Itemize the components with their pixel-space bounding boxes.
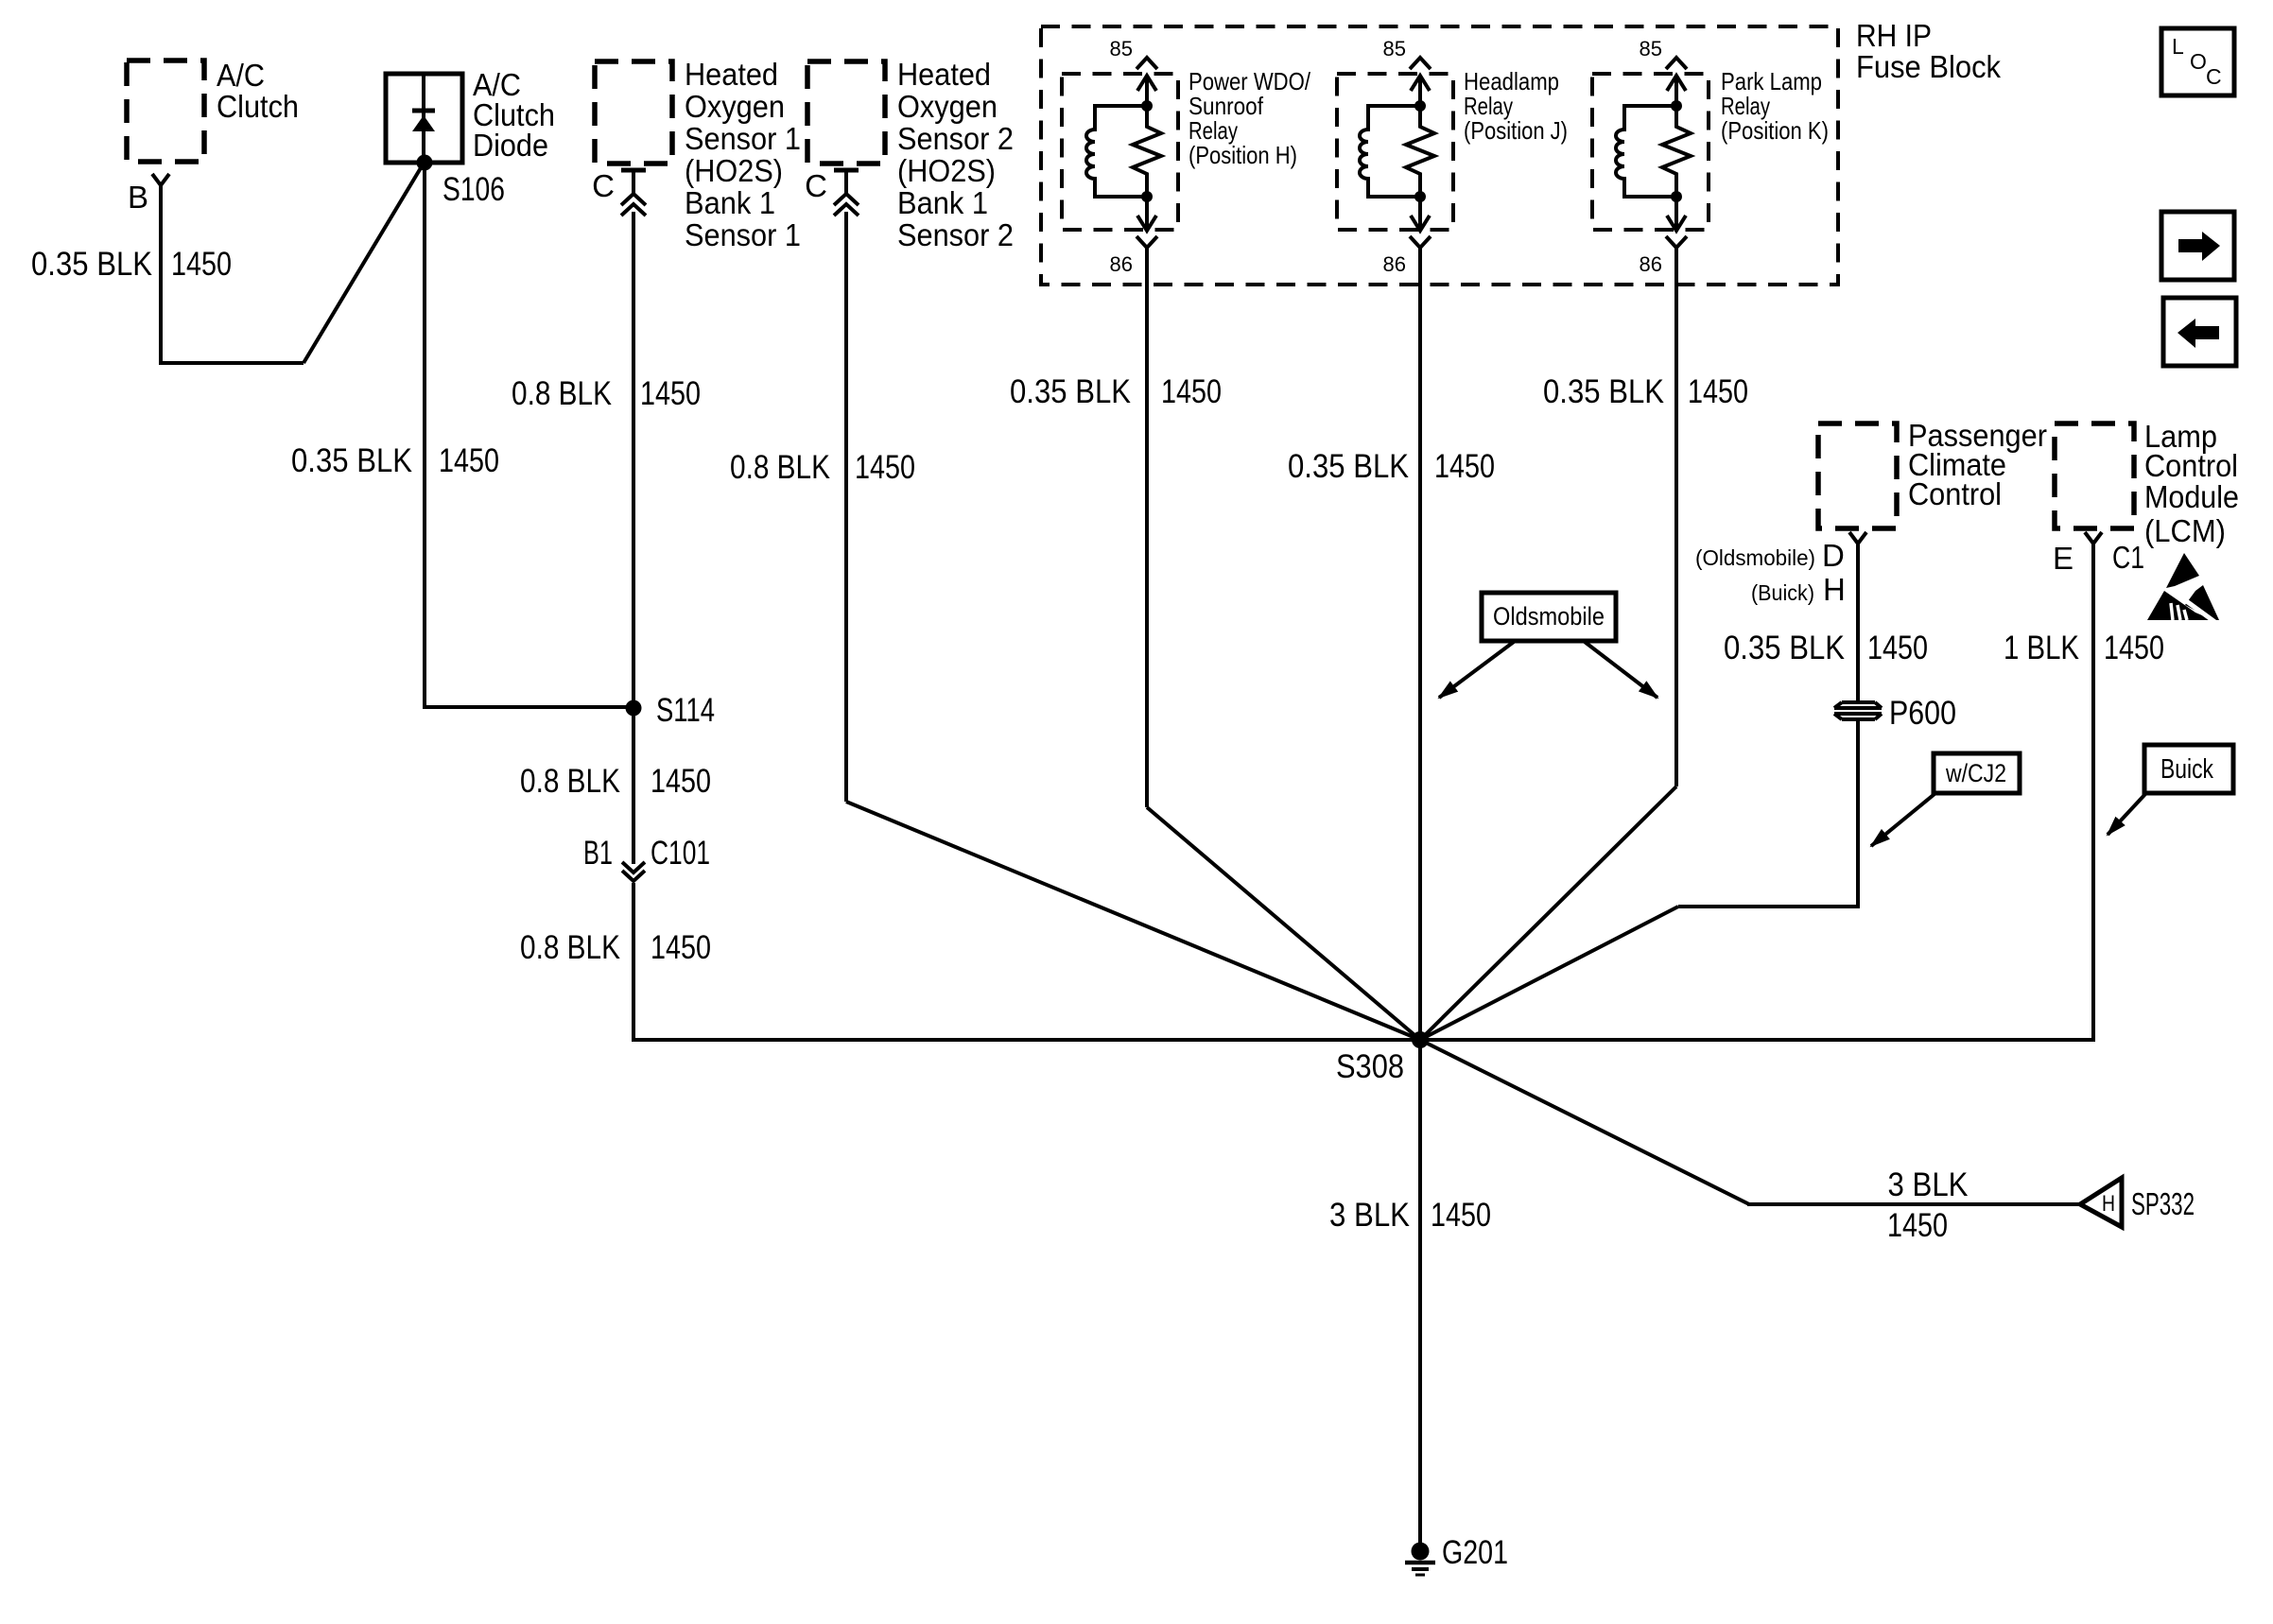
svg-text:(Oldsmobile): (Oldsmobile) (1695, 545, 1815, 570)
svg-text:0.8 BLK: 0.8 BLK (520, 763, 620, 800)
Buick callout box (2144, 745, 2233, 793)
svg-text:85: 85 (1640, 37, 1662, 60)
pin B connector of A/C Clutch (128, 174, 169, 215)
svg-text:Fuse Block: Fuse Block (1856, 49, 2001, 84)
svg-text:1450: 1450 (651, 763, 711, 800)
svg-text:(Position J): (Position J) (1464, 116, 1568, 145)
callout arrow to park lamp wire (1585, 642, 1657, 698)
wire from sensor 1 pin C down through S114 to C101 (632, 170, 635, 864)
svg-text:(Position H): (Position H) (1189, 141, 1297, 169)
splice node S308 (1336, 1031, 1429, 1085)
wire from LCM pin down to ground bus (1420, 544, 2093, 1040)
svg-text:0.35 BLK: 0.35 BLK (1724, 630, 1845, 666)
svg-text:86: 86 (1110, 252, 1133, 276)
svg-text:1 BLK: 1 BLK (2004, 630, 2079, 666)
svg-text:D: D (1822, 538, 1845, 573)
relay K2 resistor (1406, 106, 1434, 197)
wire label 3 BLK 1450 (ground wire) (1329, 1197, 1491, 1234)
svg-text:Sensor 2: Sensor 2 (897, 217, 1014, 252)
svg-text:C: C (805, 168, 827, 203)
relay K2 pin 86 (1383, 191, 1431, 276)
svg-text:1450: 1450 (2104, 630, 2164, 666)
relay K3 pin 85 (1640, 37, 1687, 106)
svg-text:0.8 BLK: 0.8 BLK (512, 375, 612, 412)
svg-text:C1: C1 (2112, 540, 2144, 575)
svg-text:Sensor 1: Sensor 1 (685, 121, 801, 156)
wire label 0.35 BLK 1450 (climate control wire) (1724, 630, 1928, 666)
svg-text:85: 85 (1383, 37, 1406, 60)
svg-text:A/C: A/C (217, 58, 265, 93)
relay K1 pin 85 (1110, 37, 1157, 106)
svg-text:C101: C101 (651, 835, 710, 872)
relay K3 Park Lamp Relay (Position K) box (1592, 67, 1829, 230)
Passenger Climate Control component box (1818, 418, 2047, 528)
LOC legend box (2161, 28, 2234, 95)
right arrow legend box (2161, 212, 2234, 280)
wire from headlamp relay pin 86 to S308 (1418, 248, 1422, 1040)
svg-text:0.35 BLK: 0.35 BLK (1288, 448, 1409, 485)
in-line connector C101 pin B1 (583, 835, 710, 881)
wire from park lamp relay pin 86 to S308 (1674, 248, 1678, 786)
svg-text:O: O (2190, 49, 2207, 74)
wire label 3 BLK / 1450 (SP332 wire) (1887, 1166, 1969, 1244)
RH IP Fuse Block outer box (1041, 18, 2001, 285)
svg-text:1450: 1450 (439, 442, 499, 479)
wire label 0.8 BLK 1450 (sensor 1 wire) (512, 375, 701, 412)
svg-text:(HO2S): (HO2S) (897, 153, 996, 188)
LCM pin E connector C1 (2053, 532, 2144, 576)
relay K1 resistor (1133, 106, 1161, 197)
relay K3 resistor (1662, 106, 1691, 197)
svg-text:Heated: Heated (897, 57, 991, 92)
wire from C101 down to long ground bus (633, 883, 1420, 1040)
svg-text:86: 86 (1640, 252, 1662, 276)
A/C Clutch Diode box (386, 67, 555, 163)
splice node S114 (626, 692, 716, 729)
svg-text:(LCM): (LCM) (2144, 513, 2226, 548)
wire from P600 down to S308 (1678, 721, 1858, 907)
relay K3 coil (1616, 100, 1682, 197)
relay K2 coil (1360, 100, 1426, 197)
svg-text:Diode: Diode (473, 128, 548, 163)
svg-text:(Buick): (Buick) (1751, 580, 1814, 605)
callout arrow to headlamp wire (1439, 642, 1514, 698)
svg-text:Bank 1: Bank 1 (685, 185, 775, 220)
wire label 0.8 BLK 1450 (below C101) (520, 929, 711, 966)
svg-text:1450: 1450 (171, 246, 232, 283)
Oldsmobile callout box (1482, 593, 1616, 641)
svg-text:Clutch: Clutch (217, 89, 299, 124)
svg-text:1450: 1450 (651, 929, 711, 966)
svg-text:Sensor 2: Sensor 2 (897, 121, 1014, 156)
svg-text:1450: 1450 (1688, 373, 1748, 410)
pin C of HO2S sensor 1 (592, 168, 646, 216)
svg-text:1450: 1450 (1867, 630, 1928, 666)
splice SP332 (2080, 1178, 2195, 1227)
svg-text:H: H (2102, 1191, 2115, 1217)
wire from S308 to splice SP332 (1420, 1040, 1749, 1204)
wire label 0.35 BLK 1450 (pin B wire) (31, 246, 232, 283)
relay K1 pin 86 (1110, 191, 1157, 276)
svg-text:Oxygen: Oxygen (897, 89, 998, 124)
relay K1 coil (1086, 100, 1153, 197)
w/CJ2 callout box (1934, 753, 2020, 793)
svg-text:0.8 BLK: 0.8 BLK (730, 449, 830, 486)
relay K3 pin 86 (1640, 191, 1687, 276)
svg-text:1450: 1450 (1161, 373, 1222, 410)
wire from S106 down to S114 (425, 163, 633, 707)
svg-text:3 BLK: 3 BLK (1329, 1197, 1410, 1234)
svg-text:85: 85 (1110, 37, 1133, 60)
svg-text:RH IP: RH IP (1856, 18, 1932, 53)
svg-text:1450: 1450 (855, 449, 915, 486)
callout arrow from Buick to LCM wire (2108, 794, 2145, 835)
splice node S106 (417, 155, 506, 209)
svg-text:Buick: Buick (2160, 754, 2213, 785)
svg-text:Sensor 1: Sensor 1 (685, 217, 801, 252)
svg-text:B1: B1 (583, 835, 613, 872)
Heated Oxygen Sensor 2 component box (807, 57, 1014, 252)
callout arrow from w/CJ2 to climate wire (1871, 794, 1935, 846)
relay K2 pin 85 (1383, 37, 1431, 106)
svg-text:Module: Module (2144, 479, 2239, 514)
wire label 0.35 BLK 1450 (park lamp relay wire) (1543, 373, 1748, 410)
ESD sensitivity symbol (2147, 553, 2219, 623)
svg-text:1450: 1450 (1431, 1197, 1491, 1234)
wire from power window relay pin 86 to S308 (1145, 248, 1149, 807)
svg-text:G201: G201 (1442, 1534, 1508, 1571)
climate control pin (Oldsmobile D / Buick H) (1695, 532, 1866, 607)
wire through diode box (422, 76, 425, 161)
svg-text:0.8 BLK: 0.8 BLK (520, 929, 620, 966)
svg-text:SP332: SP332 (2131, 1186, 2195, 1221)
svg-text:P600: P600 (1889, 695, 1956, 732)
relay K2 Headlamp Relay (Position J) box (1337, 67, 1568, 230)
wire label 0.8 BLK 1450 (sensor 2 wire) (730, 449, 915, 486)
svg-text:1450: 1450 (640, 375, 701, 412)
relay K1 Power WDO/Sunroof Relay (Position H) box (1062, 67, 1311, 230)
svg-text:H: H (1823, 572, 1846, 607)
svg-text:86: 86 (1383, 252, 1406, 276)
pin C of HO2S sensor 2 (805, 168, 859, 216)
wire from climate control pin down to P600 (1856, 544, 1860, 700)
grommet P600 (1834, 695, 1956, 732)
svg-text:0.35 BLK: 0.35 BLK (1543, 373, 1664, 410)
svg-text:w/CJ2: w/CJ2 (1945, 759, 2006, 787)
svg-text:S308: S308 (1336, 1048, 1404, 1085)
wire label 0.35 BLK 1450 (power window relay wire) (1010, 373, 1222, 410)
wire label 0.35 BLK 1450 (S106 wire) (291, 442, 499, 479)
svg-text:Control: Control (2144, 448, 2238, 483)
svg-text:Oldsmobile: Oldsmobile (1493, 602, 1605, 631)
wire label 1 BLK 1450 (LCM wire) (2004, 630, 2164, 666)
svg-text:0.35 BLK: 0.35 BLK (291, 442, 412, 479)
A/C Clutch component box (127, 58, 299, 162)
svg-text:L: L (2172, 34, 2184, 59)
svg-text:1450: 1450 (1887, 1207, 1948, 1244)
svg-text:Control: Control (1908, 476, 2002, 511)
svg-text:S106: S106 (442, 171, 505, 208)
svg-text:Oxygen: Oxygen (685, 89, 785, 124)
diode D1 inside A/C clutch diode box (412, 111, 435, 131)
Lamp Control Module component box (2055, 419, 2239, 548)
svg-text:0.35 BLK: 0.35 BLK (1010, 373, 1131, 410)
wire from sensor 2 pin C down to S308 (844, 170, 848, 802)
svg-text:Bank 1: Bank 1 (897, 185, 988, 220)
left arrow legend box (2163, 298, 2236, 366)
svg-text:1450: 1450 (1434, 448, 1495, 485)
svg-text:Heated: Heated (685, 57, 778, 92)
ground G201 (1405, 1534, 1508, 1575)
Heated Oxygen Sensor 1 component box (595, 57, 801, 252)
svg-text:0.35 BLK: 0.35 BLK (31, 246, 152, 283)
svg-text:S114: S114 (656, 692, 715, 729)
svg-text:(HO2S): (HO2S) (685, 153, 783, 188)
wire from S308 down to G201 (1418, 1040, 1422, 1543)
svg-text:E: E (2053, 541, 2073, 576)
svg-text:C: C (592, 168, 615, 203)
svg-text:(Position K): (Position K) (1721, 116, 1829, 145)
wire from pin B to S106 (161, 185, 304, 363)
svg-text:3 BLK: 3 BLK (1888, 1166, 1969, 1203)
wire label 0.8 BLK 1450 (above C101) (520, 763, 711, 800)
svg-text:B: B (128, 180, 148, 215)
wire label 0.35 BLK 1450 (headlamp relay wire) (1288, 448, 1495, 485)
svg-text:C: C (2206, 64, 2222, 89)
